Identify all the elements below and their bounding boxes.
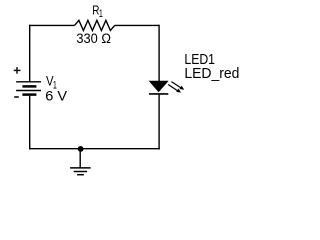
label V1	[46, 73, 57, 92]
plus polarity mark	[14, 67, 21, 74]
ground stem wire	[79, 149, 81, 168]
junction node dot	[78, 146, 84, 152]
minus polarity mark	[14, 96, 19, 98]
ground symbol	[70, 168, 91, 175]
svg-text:330 Ω: 330 Ω	[76, 31, 111, 46]
resistor R1	[75, 20, 115, 30]
svg-text:6 V: 6 V	[45, 88, 67, 104]
wire bottom	[29, 148, 160, 150]
battery V1	[16, 82, 41, 95]
LED emission arrow 1	[171, 82, 184, 90]
LED LED1 anode triangle	[150, 81, 168, 92]
LED emission arrow 2	[168, 85, 181, 93]
wire right vertical (above LED)	[158, 25, 160, 82]
svg-text:1: 1	[99, 8, 103, 20]
wire top-right segment	[115, 24, 159, 26]
LED cathode bar	[149, 93, 168, 95]
wire right vertical (below LED)	[158, 94, 160, 149]
wire left vertical (top of battery)	[29, 25, 31, 82]
svg-text:LED_red: LED_red	[184, 66, 239, 82]
wire left vertical (below battery)	[29, 96, 31, 150]
wire top-left segment	[30, 24, 75, 26]
label R1	[92, 2, 103, 19]
